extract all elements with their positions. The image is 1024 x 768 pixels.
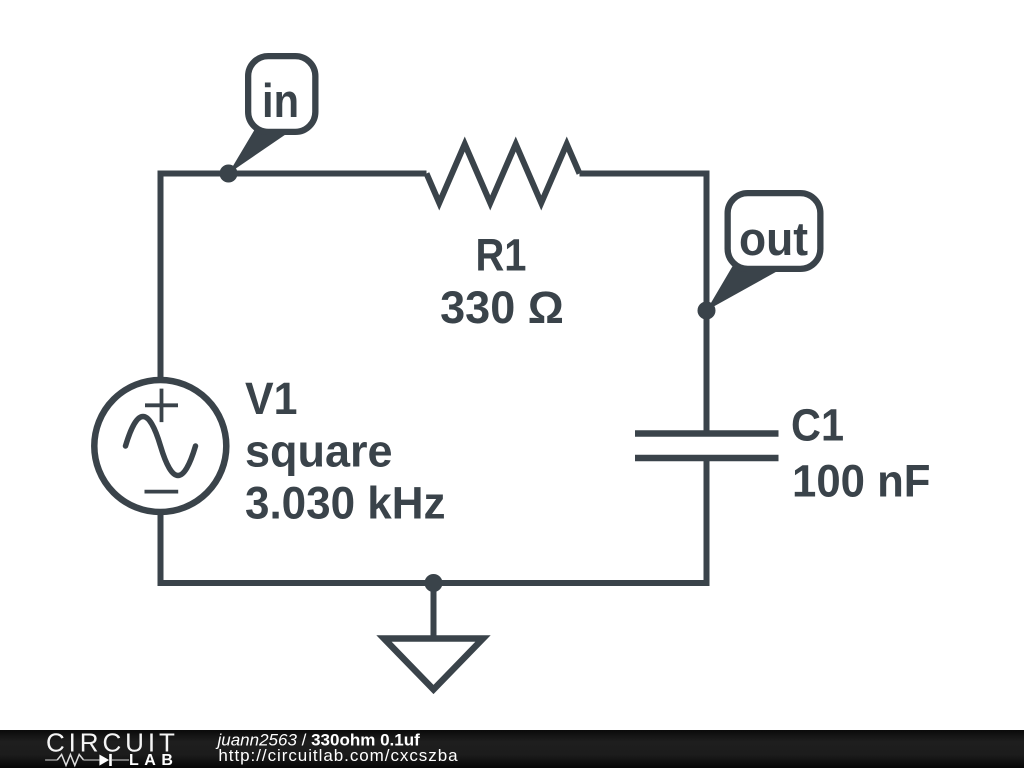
node in junction dot (220, 165, 238, 183)
source V1 sine wave (126, 417, 196, 476)
svg-text:3.030 kHz: 3.030 kHz (245, 478, 446, 529)
svg-text:C1: C1 (791, 399, 844, 450)
svg-text:square: square (245, 425, 393, 476)
ground (384, 583, 483, 690)
footer logo resistor-diode mark (45, 755, 129, 766)
svg-text:V1: V1 (245, 373, 298, 424)
source V1 minus sign (145, 490, 179, 494)
capacitor C1 (635, 434, 779, 459)
node out junction dot (698, 302, 716, 320)
node in callout (229, 56, 316, 173)
footer bar (0, 730, 1024, 768)
wire: capacitor bottom to bottom wire, bottom horizontal, left vertical lower (161, 458, 707, 583)
svg-text:100 nF: 100 nF (792, 455, 931, 506)
svg-text:R1: R1 (476, 229, 527, 280)
svg-text:out: out (739, 212, 808, 265)
ground junction dot (425, 574, 443, 592)
source V1 circle (94, 380, 226, 512)
wire: resistor to top-right corner down to capacitor (580, 174, 707, 434)
svg-text:http://circuitlab.com/cxcszba: http://circuitlab.com/cxcszba (218, 746, 458, 765)
node out callout (707, 193, 821, 310)
resistor R1 (427, 144, 580, 203)
svg-text:in: in (262, 74, 299, 127)
wire: top-left corner, left vertical upper + top horizontal to resistor (161, 174, 427, 382)
source V1 plus sign (145, 389, 178, 423)
svg-text:LAB: LAB (129, 752, 178, 768)
svg-text:330 Ω: 330 Ω (440, 282, 564, 333)
